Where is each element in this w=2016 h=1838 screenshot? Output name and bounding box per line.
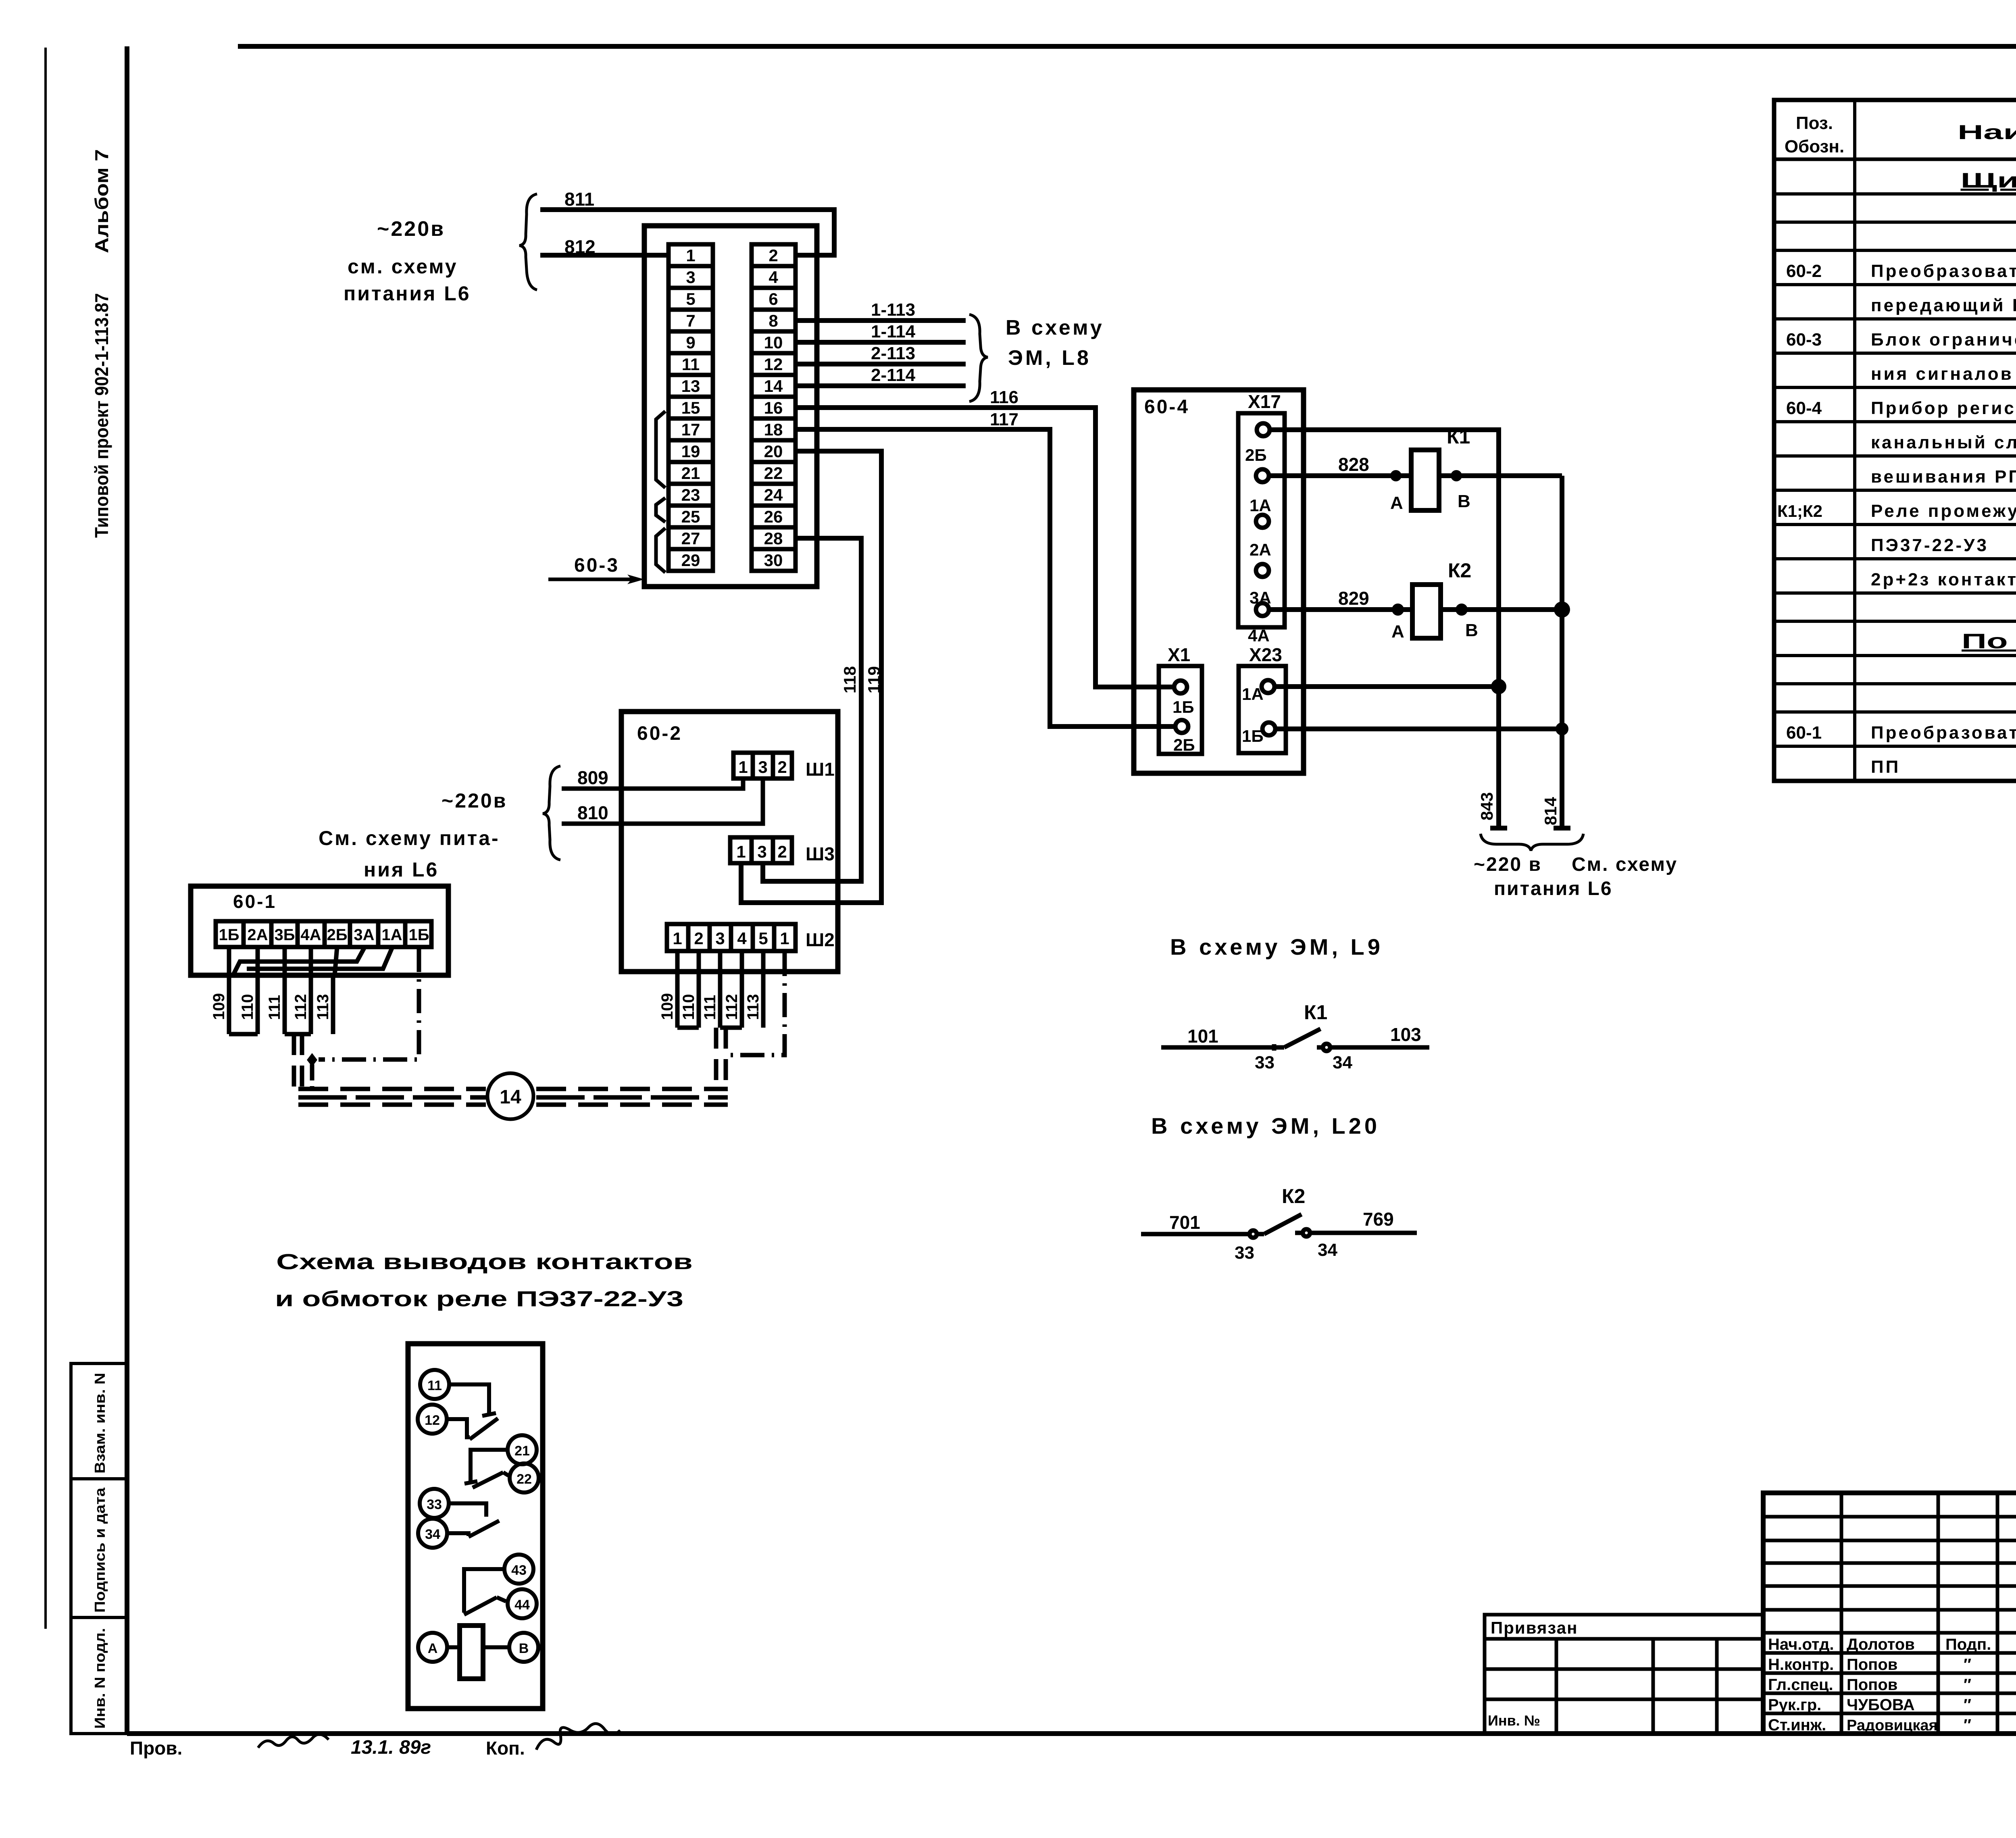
svg-text:117: 117 [990,410,1018,429]
connector Ш2 [667,924,796,951]
svg-text:3: 3 [686,268,695,287]
wire 1-114 [796,340,966,345]
svg-text:2-114: 2-114 [871,365,916,385]
svg-text:814: 814 [1541,797,1560,825]
wire 809 [562,779,743,789]
svg-text:Щит КИП: Щит КИП [1961,169,2016,192]
svg-text:Долотов: Долотов [1847,1636,1915,1653]
svg-text:103: 103 [1390,1024,1421,1045]
svg-text:Привязан: Привязан [1491,1618,1578,1637]
svg-text:″: ″ [1964,1716,1971,1734]
title block frame [1763,1493,2016,1734]
svg-text:2р+2з контакта: 2р+2з контакта [1871,570,2016,589]
svg-text:См. схему пита-: См. схему пита- [319,827,500,849]
labels Ш1 cells [738,758,787,776]
cable marker circle 14 [487,1073,533,1119]
pin circle 34 [418,1519,447,1548]
svg-text:1-114: 1-114 [871,322,916,341]
block 60-2 outer box [621,712,838,972]
svg-text:2Б: 2Б [1245,445,1267,464]
svg-text:Подпись и дата: Подпись и дата [92,1487,108,1613]
svg-text:1Б: 1Б [1242,726,1264,745]
svg-text:ЭМ, L8: ЭМ, L8 [1008,346,1091,370]
cable pair down to bundle [714,1028,719,1091]
svg-text:701: 701 [1169,1212,1200,1233]
svg-text:812: 812 [564,236,596,257]
svg-text:X1: X1 [1168,644,1190,665]
labels Ш3 cells [736,842,787,861]
svg-text:2-113: 2-113 [871,343,915,363]
svg-text:16: 16 [764,398,783,417]
svg-text:110: 110 [680,994,698,1020]
svg-text:10: 10 [764,333,783,352]
pin circle 33 [420,1489,449,1518]
svg-text:829: 829 [1338,588,1369,609]
wire 828 [1269,473,1411,478]
svg-text:1Б: 1Б [409,926,429,944]
svg-text:Блок ограничения и размноже-: Блок ограничения и размноже- [1871,330,2016,350]
svg-text:В схему ЭМ, L9: В схему ЭМ, L9 [1170,934,1383,960]
pin 2А [1256,515,1269,528]
svg-text:А: А [1390,493,1403,513]
contact 21-22 [471,1450,506,1484]
brace to EM L8 [969,314,988,402]
svg-text:К1: К1 [1304,1001,1327,1024]
svg-text:13: 13 [681,377,700,395]
svg-text:Наименование: Наименование [1958,121,2016,144]
svg-text:Ст.инж.: Ст.инж. [1768,1716,1826,1734]
contact K2 right wire 769 [1295,1231,1417,1235]
attachment box Привязан [1485,1615,1763,1734]
wire 117 [796,429,1175,726]
svg-text:60-3: 60-3 [574,555,619,576]
svg-text:2А: 2А [1250,540,1271,559]
svg-text:43: 43 [511,1563,527,1578]
svg-text:4А: 4А [300,926,321,944]
svg-text:Альбом 7: Альбом 7 [91,149,112,253]
svg-text:Н.контр.: Н.контр. [1768,1656,1834,1674]
svg-text:769: 769 [1363,1209,1394,1230]
svg-text:22: 22 [516,1472,532,1487]
drawing frame [125,46,129,1734]
leader line 60-3 [548,578,635,581]
svg-text:3: 3 [758,758,767,776]
svg-text:116: 116 [990,387,1018,407]
svg-text:101: 101 [1187,1026,1218,1047]
svg-text:Взам. инв. N: Взам. инв. N [92,1373,108,1474]
svg-text:4: 4 [768,268,778,287]
svg-text:60-2: 60-2 [637,723,682,744]
svg-text:60-1: 60-1 [1786,723,1822,743]
wire X23 1А to 843 [1275,684,1499,689]
svg-text:По месту: По месту [1962,630,2016,653]
svg-text:Подп.: Подп. [1945,1636,1991,1653]
svg-text:30: 30 [764,551,783,570]
svg-text:Типовой проект 902-1-113.87: Типовой проект 902-1-113.87 [91,293,112,538]
svg-text:2Б: 2Б [1173,735,1195,754]
svg-text:X23: X23 [1249,644,1282,665]
svg-text:112: 112 [292,994,310,1020]
svg-text:8: 8 [768,311,778,330]
svg-text:118: 118 [840,666,859,693]
connector X17 [1238,413,1285,627]
svg-text:2: 2 [694,929,703,948]
svg-text:Рук.гр.: Рук.гр. [1768,1696,1821,1714]
svg-text:9: 9 [686,333,695,352]
svg-text:Инв. №: Инв. № [1488,1712,1540,1729]
svg-text:Схема выводов контактов: Схема выводов контактов [276,1250,693,1274]
svg-text:25: 25 [681,507,700,526]
dash-dot return from spare pin [729,952,785,1055]
svg-text:ния L6: ния L6 [364,858,439,881]
contact K1 arm [1284,1029,1320,1047]
connector X23 [1239,666,1286,753]
svg-text:1: 1 [673,929,682,948]
svg-text:Ш1: Ш1 [806,759,835,780]
svg-text:12: 12 [764,355,783,374]
svg-text:А: А [428,1641,438,1656]
svg-text:2: 2 [777,758,787,776]
svg-text:113: 113 [744,994,762,1020]
terminal block 60-3 outer box [644,226,817,587]
svg-text:27: 27 [681,529,700,548]
svg-text:″: ″ [1964,1696,1971,1714]
svg-text:22: 22 [764,464,783,483]
svg-text:20: 20 [764,442,783,461]
svg-text:2: 2 [768,246,778,265]
drop wires 60-1 [227,975,231,1034]
wire 2-114 [796,383,966,388]
pin circle A [418,1633,447,1662]
svg-text:X17: X17 [1248,391,1281,412]
wire 2-113 [796,362,966,366]
terminal strip left column [669,244,713,571]
wire 118 [763,538,861,881]
svg-text:К2: К2 [1448,559,1471,582]
svg-text:809: 809 [577,767,608,788]
svg-text:В схему: В схему [1006,316,1104,339]
svg-text:питания L6: питания L6 [344,282,471,305]
block 60-1 outer box [191,886,448,975]
internal braid wiring [227,947,231,975]
wire 812 [540,253,668,258]
svg-text:″: ″ [1964,1676,1971,1694]
relay outline box [408,1344,543,1709]
svg-text:44: 44 [514,1597,530,1613]
svg-text:2: 2 [777,842,787,861]
svg-text:К2: К2 [1282,1185,1305,1207]
svg-text:А: А [1391,622,1404,641]
svg-text:Ш2: Ш2 [806,929,835,950]
svg-text:2Б: 2Б [327,926,348,944]
svg-text:17: 17 [681,420,700,439]
svg-text:1А: 1А [1242,685,1264,704]
parts table frame [1774,100,2016,781]
svg-text:18: 18 [764,420,783,439]
svg-text:~220 в: ~220 в [1474,854,1542,875]
svg-text:60-4: 60-4 [1786,398,1822,418]
pin circle 22 [510,1463,539,1492]
svg-text:1Б: 1Б [219,926,240,944]
pin circle 11 [420,1370,449,1399]
pin circle B [509,1633,538,1662]
svg-text:передающий ПИ.: передающий ПИ. [1871,296,2016,315]
svg-text:Прибор регистрирующий одно-: Прибор регистрирующий одно- [1871,398,2016,418]
svg-text:33: 33 [1235,1243,1254,1263]
svg-text:Ш3: Ш3 [806,843,835,864]
svg-text:Попов: Попов [1847,1656,1897,1674]
wire from 2Б to 843 [1270,430,1499,828]
svg-text:11: 11 [427,1378,442,1393]
relay coil K2 [1412,585,1441,638]
svg-text:Радовицкая: Радовицкая [1847,1717,1938,1734]
svg-text:12: 12 [425,1413,440,1428]
svg-text:Поз.: Поз. [1796,113,1833,133]
svg-text:~220в: ~220в [377,217,445,241]
svg-text:ния сигналов АОС.: ния сигналов АОС. [1871,364,2016,384]
svg-text:3А: 3А [354,926,374,944]
svg-text:1: 1 [686,246,695,265]
svg-text:Пров.: Пров. [130,1738,182,1759]
svg-text:3А: 3А [1250,588,1271,607]
terminal ticks K2 [1250,1230,1257,1238]
svg-text:811: 811 [564,189,594,210]
terminal strip 60-1 [216,921,431,947]
handwritten signature 1 [258,1734,329,1748]
svg-text:~220в: ~220в [442,789,507,812]
svg-text:Инв. N подл.: Инв. N подл. [92,1628,108,1729]
svg-text:11: 11 [682,355,700,374]
svg-text:60-4: 60-4 [1144,396,1189,418]
svg-text:Реле промежуточное: Реле промежуточное [1871,501,2016,521]
svg-text:питания L6: питания L6 [1494,878,1613,899]
svg-text:см. схему: см. схему [348,255,458,278]
contact K2 left wire 701 [1141,1232,1264,1236]
svg-text:4: 4 [737,929,747,948]
svg-text:В: В [519,1641,529,1656]
svg-text:5: 5 [686,289,695,308]
svg-text:3: 3 [715,929,725,948]
svg-text:1: 1 [738,758,748,776]
wire 119 [741,451,881,903]
svg-text:ПЭ37-22-У3 ~220в: ПЭ37-22-У3 ~220в [1871,535,2016,555]
svg-text:ЧУБОВА: ЧУБОВА [1847,1696,1915,1714]
svg-text:Попов: Попов [1847,1676,1897,1694]
cable bundle dashed lines [298,1087,486,1091]
svg-text:33: 33 [1255,1053,1275,1072]
svg-text:1А: 1А [381,926,402,944]
svg-text:13.1. 89г: 13.1. 89г [351,1737,431,1758]
svg-text:1Б: 1Б [1173,697,1194,716]
svg-text:2А: 2А [247,926,268,944]
svg-text:См. схему: См. схему [1572,854,1678,875]
svg-text:Нач.отд.: Нач.отд. [1768,1636,1834,1653]
pin 1А [1256,469,1269,482]
svg-text:вешивания РП 160-09.: вешивания РП 160-09. [1871,467,2016,487]
contact 33-34 [450,1503,486,1517]
svg-text:3: 3 [757,842,766,861]
svg-text:111: 111 [701,995,719,1020]
pin 3А [1256,564,1269,577]
svg-text:Коп.: Коп. [486,1738,525,1759]
svg-text:1: 1 [780,929,789,948]
labels Ш2 cells [673,929,789,948]
svg-text:К1;К2: К1;К2 [1777,502,1822,520]
svg-text:3Б: 3Б [275,926,295,944]
svg-text:112: 112 [723,994,741,1020]
svg-text:21: 21 [514,1443,530,1459]
svg-text:Преобразователь измерительный: Преобразователь измерительный [1871,261,2016,281]
connector X1 [1159,666,1202,754]
svg-text:119: 119 [864,666,883,693]
wire 810 [562,779,763,824]
sheet outer thin line left [44,48,47,1629]
handwritten signature 2 [536,1724,620,1750]
svg-text:33: 33 [427,1497,442,1512]
svg-text:4А: 4А [1248,626,1270,645]
wire 1-113 [796,318,966,323]
pin 4А [1256,603,1269,616]
svg-text:19: 19 [681,442,700,461]
svg-text:60-1: 60-1 [233,891,277,912]
left margin strip [71,1363,127,1734]
svg-text:Обозн.: Обозн. [1785,137,1844,156]
drop wires Ш2 pins [675,951,680,1028]
brace under 843 844 [1481,834,1583,851]
wire X23 1Б to 844 [1275,726,1562,731]
brace 220v feed 60-2 [543,766,560,860]
svg-text:14: 14 [764,377,783,395]
relay coil K1 [1411,450,1439,510]
svg-text:23: 23 [681,485,700,504]
svg-text:Гл.спец.: Гл.спец. [1768,1676,1833,1694]
junction diamond [307,1053,317,1067]
svg-text:″: ″ [1964,1656,1971,1674]
svg-text:34: 34 [1318,1240,1337,1260]
signature rows [1763,1631,2016,1635]
svg-text:Преобразователь первичный: Преобразователь первичный [1871,723,2016,743]
svg-text:канальный следящего уравно-: канальный следящего уравно- [1871,433,2016,452]
pin 2Б [1257,423,1270,436]
svg-text:7: 7 [686,311,695,330]
svg-text:В: В [1465,620,1478,640]
dash-dot return from spare terminal [319,948,419,1060]
connector Ш1 [733,753,792,778]
svg-text:21: 21 [681,464,700,483]
svg-text:26: 26 [764,507,783,526]
svg-text:1А: 1А [1250,496,1271,515]
svg-text:28: 28 [764,529,783,548]
svg-text:14: 14 [500,1087,521,1108]
svg-text:1: 1 [736,842,746,861]
relay coil [460,1626,483,1679]
pin circle 21 [508,1435,537,1464]
svg-text:В: В [1458,491,1470,511]
pin circle 43 [504,1555,533,1584]
block 60-4 outer box [1134,390,1304,773]
svg-text:828: 828 [1338,454,1369,475]
svg-text:29: 29 [681,551,700,570]
terminal strip right column [752,244,796,571]
contact K1 right wire 103 [1317,1045,1429,1050]
svg-text:109: 109 [658,993,676,1020]
svg-text:34: 34 [425,1527,440,1542]
mini grid rows [1763,1515,2016,1519]
connector Ш3 [730,837,792,863]
bottom ticks 843 844 [1490,826,1507,831]
cable pair down to bundle 60-1 [292,1034,296,1091]
svg-text:6: 6 [768,289,778,308]
wire 829 [1269,607,1412,612]
svg-text:15: 15 [681,398,700,417]
svg-text:24: 24 [764,485,783,504]
svg-text:810: 810 [577,802,608,823]
brace 220v feed [519,194,537,290]
grouping brackets left of terminals [656,411,665,488]
contact K2 arm [1264,1214,1302,1234]
pin circle 12 [418,1405,447,1434]
svg-text:5: 5 [758,929,768,948]
svg-text:ПП: ПП [1871,757,1900,777]
svg-text:60-3: 60-3 [1786,330,1822,350]
svg-text:113: 113 [314,994,332,1020]
contact K1 left wire 101 [1161,1045,1284,1050]
wire 811 [540,210,834,255]
wire 844 vertical [1560,476,1564,828]
svg-text:109: 109 [210,993,228,1020]
terminal ticks [1272,1044,1277,1051]
wire 116 [796,408,1174,687]
svg-text:111: 111 [266,995,283,1020]
svg-text:1-113: 1-113 [871,300,915,320]
svg-text:60-2: 60-2 [1786,261,1822,281]
svg-text:110: 110 [239,994,256,1020]
svg-text:В схему ЭМ, L20: В схему ЭМ, L20 [1151,1113,1380,1139]
junction dots [1393,473,1399,479]
svg-text:К1: К1 [1447,425,1470,448]
svg-text:и обмоток реле ПЭ37-22-У3: и обмоток реле ПЭ37-22-У3 [275,1287,683,1311]
contact 11-12 [449,1384,489,1416]
svg-text:34: 34 [1333,1053,1352,1072]
pin circle 44 [508,1589,537,1618]
contact 43-44 [464,1569,503,1613]
svg-text:843: 843 [1477,792,1496,820]
